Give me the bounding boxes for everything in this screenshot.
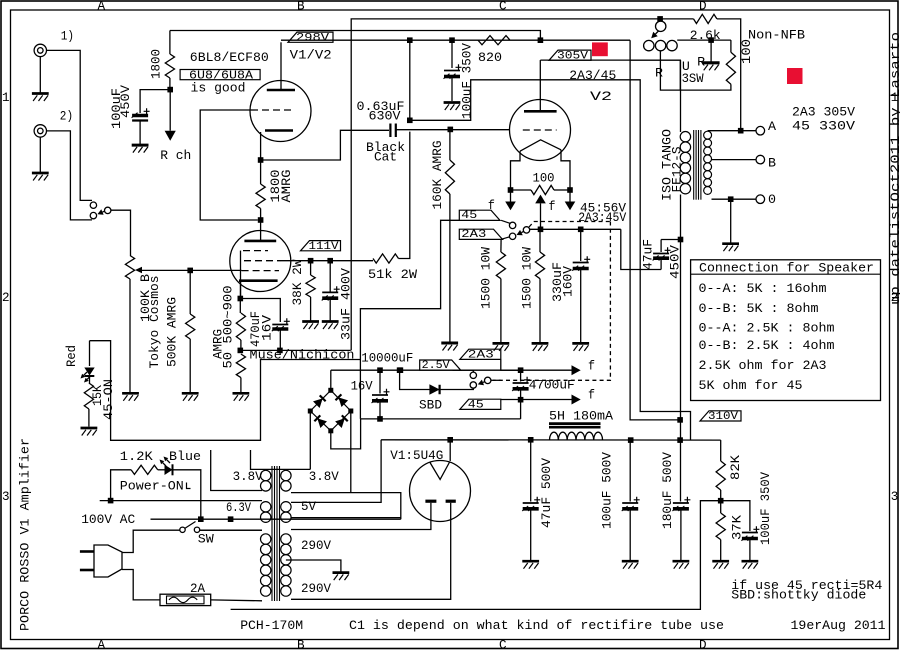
label 51k 2W: [368, 267, 417, 282]
svg-text:FE12-S: FE12-S: [670, 146, 685, 192]
ground 160K: [441, 343, 458, 351]
svg-text:SBD:shottky diode: SBD:shottky diode: [731, 588, 866, 603]
node pot wiper line: [187, 268, 193, 274]
input selector wiper arrow: [97, 209, 104, 215]
label f heater lower: [588, 388, 595, 403]
wire jack2 to selector: [47, 131, 93, 220]
ground 100uF 450V: [132, 145, 149, 153]
node V1a grid return: [258, 217, 264, 223]
wire S2 wiper stub: [491, 379, 501, 381]
svg-text:Tokyo Cosmos: Tokyo Cosmos: [147, 276, 162, 369]
resistor 37K: [716, 501, 725, 560]
resistor 50 cathode: [236, 354, 245, 393]
label 100uF 350V: [460, 43, 475, 119]
zone letter D bottom: [699, 638, 707, 650]
svg-text:0--B: 5K : 8ohm: 0--B: 5K : 8ohm: [699, 301, 819, 316]
svg-text:45 330V: 45 330V: [792, 119, 855, 134]
switch SW lever: [185, 522, 196, 529]
capacitor 4700uF: [512, 370, 530, 400]
svg-text:AMRG: AMRG: [279, 169, 294, 202]
switch S2 wiper: [485, 377, 491, 383]
hum wiper arrow: [535, 195, 546, 230]
svg-text:2A3: 2A3: [461, 229, 486, 241]
speaker row 1: [699, 281, 827, 296]
capacitor 47uF 500V: [522, 440, 540, 560]
label 47uF 500V: [539, 458, 554, 528]
label 450V ultrapath: [668, 245, 683, 279]
switch U contact 2: [655, 40, 665, 50]
terminal 0: [756, 195, 765, 204]
PT 5V winding: [281, 502, 291, 523]
node 330uF top: [578, 227, 584, 233]
svg-text:Connection for Speaker: Connection for Speaker: [699, 260, 874, 275]
svg-text:B: B: [297, 638, 305, 650]
svg-text:0--B: 2.5K : 4ohm: 0--B: 2.5K : 4ohm: [699, 338, 835, 353]
wire V1b cathode down: [240, 281, 242, 299]
box 6U8/6U8A: [180, 69, 260, 82]
svg-text:16V: 16V: [351, 379, 373, 394]
bridge node right: [348, 409, 353, 414]
wire 4700uF bottom jog: [520, 400, 522, 419]
label is good: [191, 80, 246, 95]
speaker box: [691, 260, 881, 401]
svg-text:100V AC: 100V AC: [81, 512, 135, 527]
input jack J1: [34, 44, 46, 56]
wire V2 anode line: [540, 59, 680, 61]
resistor 38K 2W: [306, 261, 315, 321]
label f right: [549, 199, 556, 214]
node tap A: [738, 128, 744, 134]
red square 1: [592, 42, 608, 56]
label 6BL8/ECF80: [190, 50, 269, 65]
5U4G right plate: [446, 500, 456, 503]
svg-text:160K AMRG: 160K AMRG: [430, 140, 445, 209]
svg-text:100uF 350V: 100uF 350V: [460, 43, 475, 119]
node divider: [718, 498, 724, 504]
ground 290V center tap: [333, 573, 350, 581]
svg-text:2: 2: [2, 291, 10, 305]
zone number 3 right: [891, 490, 899, 504]
PT primary winding: [261, 534, 271, 596]
ground tap 0: [722, 244, 739, 252]
switch S2 contact 2.5V: [470, 372, 476, 378]
label 2A3 305V: [792, 105, 855, 120]
label 15K: [90, 385, 105, 406]
wire V1a anode: [280, 42, 282, 89]
zone letter A bottom: [98, 638, 106, 650]
bridge diode TR: [335, 394, 348, 407]
wire V1a cathode: [260, 132, 262, 160]
wire left plate to 290V top: [291, 503, 431, 530]
svg-text:3SW: 3SW: [682, 71, 704, 86]
PT core: [272, 466, 280, 601]
resistor 82K: [716, 461, 725, 490]
wire V1b screen out: [281, 260, 373, 262]
ground 33uF: [322, 322, 339, 330]
wire 2.6k to terminal A: [717, 19, 741, 128]
resistor 1800 AMRG: [256, 160, 265, 220]
zone letter D top: [699, 0, 707, 13]
label 2.6k: [690, 28, 721, 43]
label U: [682, 59, 690, 74]
node power-on bottom: [198, 516, 204, 522]
svg-text:4700uF: 4700uF: [529, 378, 575, 393]
svg-text:3.8V: 3.8V: [309, 469, 339, 484]
svg-text:45: 45: [461, 210, 477, 222]
svg-text:100: 100: [739, 39, 754, 64]
flag 2A3 lower: [460, 349, 501, 361]
label 3.8V left: [233, 469, 263, 484]
V1b grid2 dashes: [244, 260, 281, 262]
capacitor 16V: [372, 370, 390, 419]
zone letter C bottom: [499, 638, 507, 650]
label 82K: [728, 455, 743, 480]
svg-text:PCH-170M: PCH-170M: [240, 618, 303, 633]
label 45:56V: [580, 201, 626, 216]
label 38K 2W: [290, 259, 305, 305]
resistor 100 hum balance: [511, 185, 571, 194]
svg-text:A: A: [98, 638, 106, 650]
ground 100uF 350V: [444, 103, 461, 111]
label Cat: [374, 150, 397, 165]
V1b cathode plate: [239, 279, 278, 282]
node 38K top: [308, 258, 314, 264]
svg-text:is good: is good: [191, 80, 246, 95]
node OPT bottom: [678, 237, 684, 243]
ground R: [702, 63, 719, 71]
label 100 hum: [533, 171, 555, 186]
wire V2 anode: [539, 60, 541, 111]
svg-text:R: R: [655, 66, 663, 81]
svg-text:19erAug 2011: 19erAug 2011: [791, 618, 886, 633]
V1b grid3 dashes: [243, 250, 268, 252]
wire primary top lead: [200, 529, 263, 531]
wire 290V center tap: [286, 560, 341, 572]
AC plug: [94, 545, 122, 577]
svg-text:3.8V: 3.8V: [233, 469, 263, 484]
svg-text:6.3V: 6.3V: [226, 500, 251, 515]
wire 6.3V top lead: [100, 500, 262, 502]
wire secondary tap 0: [712, 198, 757, 200]
wire 3.8VL bottom lead: [211, 450, 262, 491]
wire node to 100uF cap: [140, 90, 170, 113]
ground 37K: [712, 561, 729, 569]
wire 100 bottom loop: [660, 51, 731, 90]
wire power-on loop right: [173, 470, 201, 519]
wire V2 filament left leg: [511, 151, 521, 190]
wire 45 flag line: [501, 399, 521, 401]
switch S1 wiper: [523, 227, 529, 233]
svg-text:180uF 500V: 180uF 500V: [660, 452, 675, 529]
label 33uF 400V: [339, 268, 354, 340]
svg-text:Cat: Cat: [374, 150, 397, 165]
svg-text:B: B: [768, 156, 776, 171]
svg-text:up datelistOct2011 by Lasarto: up datelistOct2011 by Lasarto: [889, 32, 900, 305]
label Power-ON: [120, 479, 191, 494]
wire plug to switch: [122, 530, 180, 552]
wire jack1 ground lead: [39, 57, 41, 93]
svg-text:100uF 350V: 100uF 350V: [758, 472, 773, 545]
capacitor 470uF 16V: [272, 318, 290, 350]
switch S1 wiper arrow: [517, 230, 524, 235]
wire cathode out to coupling cap: [261, 130, 389, 160]
label SBD: [419, 398, 442, 413]
ground cathode resistor: [233, 393, 250, 401]
arrow f heater lower: [521, 395, 581, 405]
wire B+ rail drop: [630, 40, 680, 420]
node B+ 100uF: [628, 437, 634, 443]
svg-text:0--A: 2.5K : 8ohm: 0--A: 2.5K : 8ohm: [699, 321, 835, 336]
label 2A3/45: [569, 68, 616, 83]
resistor 160K AMRG grid leak: [445, 130, 454, 342]
V2 filament: [520, 140, 561, 151]
svg-text:47uF 500V: 47uF 500V: [539, 458, 554, 528]
zone number 3 left: [2, 490, 10, 504]
V1b grid1 dashes: [242, 270, 279, 272]
wire pot wiper to V1b grid: [142, 269, 242, 271]
resistor 100 NFB: [726, 40, 735, 84]
label FE12-S: [670, 146, 685, 192]
wire switch to primary: [200, 529, 262, 531]
svg-text:Non-NFB: Non-NFB: [748, 28, 805, 43]
node power-on top: [108, 498, 114, 504]
label SW: [198, 532, 214, 547]
node B+V1 riser top: [407, 37, 413, 43]
terminal B: [756, 155, 765, 164]
wire bridge left lead: [309, 411, 311, 469]
wire heater return: [151, 518, 401, 520]
label Non-NFB: [748, 28, 805, 43]
switch S1 contact 2A3: [509, 233, 515, 239]
fuse 2A: [160, 594, 211, 605]
svg-text:500K AMRG: 500K AMRG: [165, 297, 180, 367]
label 50 500-900: [221, 285, 236, 368]
wire cap to V2 grid: [396, 129, 509, 131]
red square 2: [787, 68, 803, 84]
svg-text:SW: SW: [198, 532, 214, 547]
flag 2.5V: [420, 360, 461, 372]
svg-text:Power-ON: Power-ON: [120, 479, 184, 494]
V2 grid dashes: [523, 129, 557, 131]
wire 45-ON branch top: [90, 341, 361, 441]
svg-text:D: D: [699, 0, 707, 13]
capacitor 33uF 400V: [322, 261, 340, 321]
node filament right: [567, 187, 573, 193]
resistor 1500 10W second: [535, 229, 544, 342]
switch SW contact right: [194, 527, 199, 532]
label 1): [61, 30, 74, 44]
node 2A3/45 tap: [407, 118, 413, 124]
svg-text:C: C: [499, 0, 507, 13]
svg-text:2.5V: 2.5V: [422, 360, 450, 372]
svg-text:51k 2W: 51k 2W: [368, 267, 417, 282]
wire 45 flag to contact: [501, 220, 510, 223]
label f heater upper: [588, 359, 595, 374]
title PORCO ROSSO V1 Amplifier left border: [18, 438, 33, 631]
input selector contact 1: [90, 202, 96, 208]
wire DC- line: [361, 418, 521, 420]
svg-text:3: 3: [2, 490, 10, 504]
switch U wiper arrow: [651, 31, 658, 38]
wire secondary tap A: [708, 130, 756, 132]
label 45 330V: [792, 119, 855, 134]
svg-text:47uF: 47uF: [641, 239, 656, 270]
ground 500K resistor: [182, 393, 199, 401]
wire V2 filament right leg: [561, 150, 570, 190]
svg-text:2.6k: 2.6k: [690, 28, 721, 43]
svg-text:290V: 290V: [301, 538, 331, 553]
wire OPT primary top lead: [680, 60, 682, 132]
switch U contact 3: [667, 40, 677, 50]
label 500K AMRG: [165, 297, 180, 367]
switch S2 contact SBD: [470, 382, 476, 388]
resistor 820: [478, 36, 510, 45]
svg-text:Red: Red: [64, 345, 79, 367]
label 6.3V: [226, 500, 251, 515]
wire 45 net: [360, 220, 459, 419]
pot wiper arrow: [135, 267, 142, 273]
label 19erAug 2011: [791, 618, 886, 633]
capacitor 100uF 450V: [132, 108, 150, 120]
label R ch: [160, 148, 191, 163]
label R near ground: [697, 55, 705, 70]
svg-text:1500 10W: 1500 10W: [520, 247, 535, 309]
svg-text:2A3 305V: 2A3 305V: [792, 105, 855, 120]
5U4G left plate: [425, 500, 436, 503]
svg-text:f: f: [588, 359, 595, 374]
wire 298V rail: [170, 31, 541, 41]
wire V1a grid: [200, 110, 258, 220]
resistor 500-900 cathode: [236, 299, 245, 351]
label SBD shottky: [731, 588, 866, 603]
svg-text:310V: 310V: [708, 411, 738, 423]
input selector contact 2: [90, 212, 96, 218]
wire cathode line to 47uF: [621, 229, 661, 269]
LED Red rays: [81, 372, 91, 383]
capacitor 0.63uF 630V Black Cat: [390, 124, 395, 138]
LED Red: [84, 341, 94, 376]
PT 3.8V right winding: [281, 470, 291, 491]
node 820 junction: [538, 37, 544, 43]
svg-text:PORCO ROSSO V1 Amplifier: PORCO ROSSO V1 Amplifier: [18, 438, 33, 631]
ground jack1: [32, 94, 49, 102]
bridge diode TL: [313, 395, 326, 408]
ground 1500 first: [493, 343, 510, 351]
label if use 45: [731, 578, 882, 593]
zone letter B top: [297, 0, 305, 13]
wire selector to volume pot: [111, 210, 131, 255]
capacitor 330uF 160V: [572, 229, 590, 342]
flag 45 upper: [459, 210, 500, 222]
speaker row 6: [699, 378, 803, 393]
label 3.8V right: [309, 469, 339, 484]
switch U common: [656, 21, 666, 31]
label Blue: [169, 449, 201, 464]
choke 5H 180mA: [549, 424, 603, 440]
switch U contact 1: [644, 40, 654, 50]
label 3SW: [682, 71, 704, 86]
flag 310V: [700, 411, 741, 423]
label 330uF 160V: [550, 262, 575, 302]
label V1:5U4G: [390, 448, 443, 463]
wire R ground lead: [710, 40, 712, 61]
svg-text:C: C: [499, 638, 507, 650]
wire 47uF to OPT bottom: [661, 239, 680, 241]
wire OPT primary bottom lead: [680, 195, 682, 240]
wire 82K to node: [720, 490, 722, 501]
node B+ OPT: [677, 437, 683, 443]
speaker row 4: [699, 338, 835, 353]
svg-text:450V: 450V: [118, 85, 133, 118]
label 160K AMRG: [430, 140, 445, 209]
svg-text:f: f: [549, 199, 556, 214]
ground 330uF: [572, 343, 589, 351]
svg-text:A: A: [98, 0, 106, 13]
label ISO TANGO: [660, 129, 675, 201]
label 37K: [730, 515, 745, 540]
wire right plate to 290V bottom: [291, 503, 451, 600]
wire secondary tap B: [712, 159, 757, 161]
bridge node top: [328, 388, 333, 393]
wire 3.8VL top lead: [251, 450, 311, 469]
node 4700uF top: [518, 367, 524, 373]
resistor 2.6k: [694, 14, 717, 23]
svg-text:2A3/45: 2A3/45: [569, 68, 616, 83]
svg-text:16V: 16V: [260, 315, 275, 341]
wire tap 0 ground lead: [730, 199, 732, 242]
label 1800: [149, 49, 164, 79]
svg-text:100: 100: [533, 171, 555, 186]
diode SBD: [429, 384, 439, 395]
svg-text:2A3: 2A3: [468, 349, 494, 361]
svg-text:1500 10W: 1500 10W: [479, 247, 494, 309]
svg-text:820: 820: [478, 50, 502, 65]
zone number 1 right: [891, 91, 899, 105]
svg-text:SBD: SBD: [419, 398, 442, 413]
speaker box title: [699, 260, 874, 275]
wire jack2 ground lead: [39, 137, 41, 172]
label 100uF 450V: [109, 85, 133, 129]
potentiometer 100K B volume: [125, 256, 134, 280]
svg-text:R ch: R ch: [160, 148, 191, 163]
bridge node left: [308, 409, 313, 414]
bridge diode BL: [314, 415, 327, 428]
V1a cathode plate: [265, 129, 293, 132]
PT 290V winding: [281, 534, 291, 596]
input selector wiper: [105, 207, 111, 213]
wire bridge bottom jog: [331, 419, 361, 449]
label 100V AC: [81, 512, 135, 527]
label Red: [64, 345, 79, 367]
LED Blue rays: [160, 457, 171, 467]
label B: [768, 156, 776, 171]
resistor 15K: [84, 377, 93, 427]
svg-text:50 500~900: 50 500~900: [221, 285, 236, 368]
label A: [768, 119, 776, 134]
svg-text:2): 2): [60, 109, 73, 123]
wire S1 wiper line: [530, 228, 621, 230]
tube V2 envelope: [510, 100, 571, 161]
label 5H 180mA: [549, 408, 613, 423]
wire B+V1 riser: [409, 40, 411, 120]
ground jack2: [32, 173, 49, 181]
flag 305V: [549, 50, 591, 62]
label PCH-170M: [240, 618, 303, 633]
zone number 2 left: [2, 291, 10, 305]
svg-text:D: D: [699, 638, 707, 650]
resistor 1500 10W first: [496, 239, 505, 342]
ground 100uF 500V: [622, 561, 639, 569]
